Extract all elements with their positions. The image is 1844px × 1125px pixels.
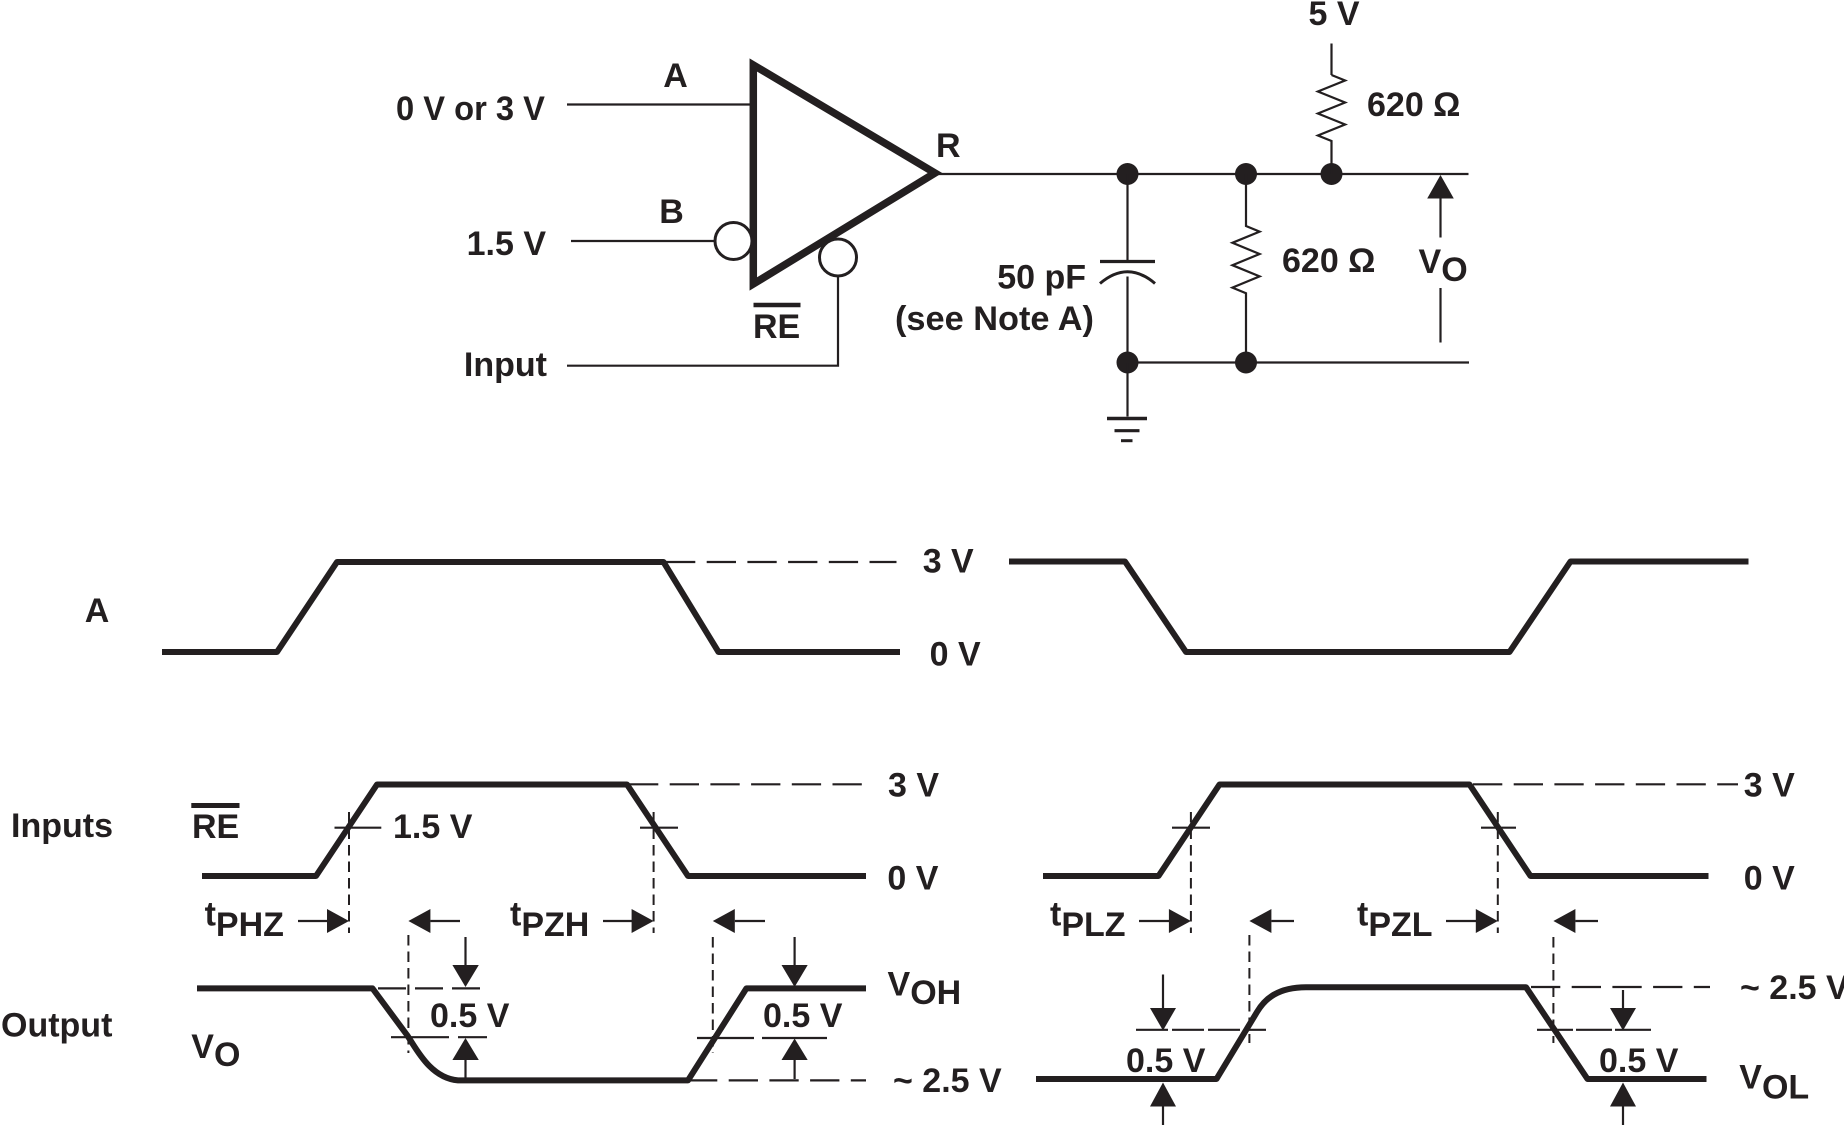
1.5V crossing tick (RE left rise) bbox=[335, 827, 382, 829]
resistor R2 620 ohm load bbox=[1232, 174, 1259, 363]
dashed vertical output LZ ref bbox=[1248, 935, 1250, 1043]
svg-text:~ 2.5 V: ~ 2.5 V bbox=[1740, 969, 1844, 1007]
svg-text:(see Note A): (see Note A) bbox=[895, 300, 1094, 338]
dashed vertical output HZ ref bbox=[407, 935, 409, 1053]
svg-text:620 Ω: 620 Ω bbox=[1367, 86, 1460, 124]
svg-text:Inputs: Inputs bbox=[11, 807, 113, 845]
left pointing arrow after tPLZ bbox=[1249, 909, 1271, 933]
dashed vertical output ZH ref bbox=[712, 937, 714, 1053]
tPLZ arrow (right pointing) bbox=[1139, 920, 1169, 922]
receiver U1 (triangle) bbox=[753, 65, 935, 284]
0.5V down arrow (cluster 1) bbox=[464, 937, 466, 966]
wire bottom rail bbox=[1128, 361, 1470, 363]
signal label RE (overline) bbox=[191, 803, 239, 808]
svg-text:0.5 V: 0.5 V bbox=[763, 997, 843, 1035]
wire output rail (top) bbox=[935, 173, 1469, 175]
svg-text:3 V: 3 V bbox=[1744, 767, 1795, 805]
tPZH arrow (right pointing) bbox=[603, 920, 633, 922]
left pointing arrow after tPZH bbox=[713, 909, 735, 933]
svg-text:~ 2.5 V: ~ 2.5 V bbox=[893, 1062, 1002, 1100]
wire 5V stub bbox=[1330, 44, 1332, 76]
wire RE enable input bbox=[567, 277, 838, 366]
svg-text:0 V: 0 V bbox=[887, 860, 938, 898]
svg-text:R: R bbox=[936, 127, 961, 165]
svg-text:1.5 V: 1.5 V bbox=[467, 225, 547, 263]
svg-text:A: A bbox=[663, 57, 688, 95]
wire input A bbox=[567, 103, 753, 105]
dashed vertical tPZH start ref bbox=[653, 812, 655, 933]
junction node dot 3 bbox=[1321, 163, 1343, 185]
svg-text:1.5 V: 1.5 V bbox=[393, 808, 473, 846]
left pointing arrow after tPZL bbox=[1553, 909, 1575, 933]
svg-text:0 V or 3 V: 0 V or 3 V bbox=[396, 90, 545, 128]
0.5V up arrow (cluster 2) bbox=[782, 1039, 808, 1061]
dashed vertical tPHZ start ref bbox=[348, 812, 350, 933]
VOH-0.5V ref line (cluster 2) bbox=[697, 1037, 754, 1039]
left pointing arrow after tPHZ bbox=[408, 909, 430, 933]
waveform RE (left) bbox=[202, 785, 866, 877]
waveform VO (left) bbox=[197, 988, 866, 1080]
tPZL arrow (right pointing) bbox=[1446, 920, 1476, 922]
svg-text:5 V: 5 V bbox=[1308, 0, 1359, 33]
capacitor C1 top wire bbox=[1126, 174, 1128, 261]
svg-text:A: A bbox=[85, 592, 110, 630]
0.5V up arrow (right cluster 1) bbox=[1150, 1083, 1176, 1107]
junction node dot 2 bbox=[1235, 163, 1257, 185]
svg-text:RE: RE bbox=[753, 308, 800, 346]
svg-text:0.5 V: 0.5 V bbox=[1126, 1042, 1206, 1080]
VOH level ref dashes (cluster 1) bbox=[378, 987, 487, 989]
capacitor C1 top plate bbox=[1100, 260, 1155, 263]
VO measurement arrow bbox=[1419, 175, 1468, 343]
1.5V crossing tick (RE left fall) bbox=[640, 827, 678, 829]
svg-text:50 pF: 50 pF bbox=[997, 259, 1086, 297]
dashed 2.5V reference (right) bbox=[1531, 986, 1710, 988]
waveform A (left) bbox=[162, 562, 900, 652]
1.5V crossing tick (RE right fall) bbox=[1481, 827, 1516, 829]
VOH-0.5V ref line (cluster 1) bbox=[391, 1036, 487, 1038]
waveform RE (right) bbox=[1043, 785, 1709, 877]
0.5V up arrow (right cluster 2) bbox=[1610, 1083, 1636, 1107]
dashed 2.5V reference (left) bbox=[688, 1079, 866, 1081]
junction node dot 4 bbox=[1117, 352, 1139, 374]
svg-text:0 V: 0 V bbox=[930, 636, 981, 674]
capacitor C1 bottom plate (curved) bbox=[1100, 272, 1155, 284]
waveform VO (right) bbox=[1036, 987, 1707, 1079]
dashed vertical tPLZ start ref bbox=[1190, 812, 1192, 933]
0.5V down arrow (right cluster 2) bbox=[1622, 990, 1624, 1009]
VOL+0.5V ref line (cluster 1) bbox=[1136, 1029, 1266, 1031]
svg-text:Output: Output bbox=[1, 1007, 112, 1045]
dashed 3V reference (RE right) bbox=[1473, 783, 1738, 785]
svg-text:3 V: 3 V bbox=[923, 543, 974, 581]
VOL+0.5V ref line (cluster 2) bbox=[1537, 1029, 1652, 1031]
dashed 3V reference (A left) bbox=[666, 561, 897, 563]
inversion bubble on B input bbox=[715, 223, 752, 260]
svg-text:620 Ω: 620 Ω bbox=[1282, 242, 1375, 280]
svg-text:0.5 V: 0.5 V bbox=[430, 997, 510, 1035]
junction node dot 1 bbox=[1117, 163, 1139, 185]
resistor R1 620 ohm pull-up bbox=[1318, 75, 1345, 174]
0.5V down arrow (cluster 2) bbox=[793, 937, 795, 966]
svg-text:0 V: 0 V bbox=[1744, 860, 1795, 898]
ground bbox=[1107, 363, 1147, 441]
waveform A (right) bbox=[1009, 562, 1749, 653]
svg-text:3 V: 3 V bbox=[888, 767, 939, 805]
inversion bubble on RE enable bbox=[820, 239, 857, 276]
svg-text:RE: RE bbox=[192, 808, 239, 846]
capacitor C1 bottom wire bbox=[1126, 277, 1128, 363]
junction node dot 5 bbox=[1235, 352, 1257, 374]
svg-text:B: B bbox=[659, 193, 684, 231]
0.5V down arrow (right cluster 1) bbox=[1162, 975, 1164, 1010]
dashed 3V reference (RE left) bbox=[629, 783, 864, 785]
tPHZ arrow (right pointing) bbox=[298, 920, 330, 922]
dashed vertical output ZL ref bbox=[1552, 937, 1554, 1043]
svg-text:0.5 V: 0.5 V bbox=[1599, 1042, 1679, 1080]
wire input B bbox=[571, 240, 716, 242]
1.5V crossing tick (RE right rise) bbox=[1172, 827, 1210, 829]
pin label RE (overline) bbox=[754, 303, 801, 308]
0.5V up arrow (cluster 1) bbox=[452, 1038, 478, 1060]
dashed vertical tPZL start ref bbox=[1497, 812, 1499, 933]
svg-text:Input: Input bbox=[464, 346, 547, 384]
